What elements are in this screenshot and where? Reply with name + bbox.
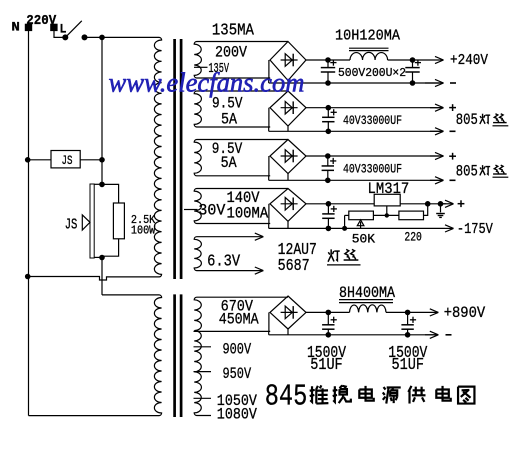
- node C2 top: [410, 57, 416, 63]
- wire LM317 out rail: [400, 203, 446, 205]
- output arrow + (805): [430, 104, 456, 111]
- wire D4 - rail: [269, 227, 445, 229]
- label 200V: [215, 44, 247, 62]
- relay contact JS box: [51, 151, 80, 169]
- node C1 top: [325, 57, 331, 63]
- svg-text:8H400MA: 8H400MA: [339, 284, 396, 302]
- svg-text:5A: 5A: [221, 154, 237, 172]
- svg-text:500V200U×2: 500V200U×2: [338, 66, 406, 80]
- label 100MA: [227, 204, 269, 222]
- label 40V33000UF (2): [343, 161, 402, 176]
- svg-text:6.3V: 6.3V: [207, 252, 241, 271]
- node C6 top: [326, 310, 332, 316]
- svg-text:+890V: +890V: [444, 304, 486, 322]
- bridge rectifier D3: [269, 140, 306, 181]
- label 500V200U x2: [338, 66, 406, 80]
- output arrow minus (805 2): [430, 177, 456, 184]
- transformer T1 core: [175, 39, 182, 279]
- terminal N: [11, 20, 31, 35]
- label 40V33000UF (1): [343, 113, 402, 128]
- svg-text:900V: 900V: [223, 340, 252, 358]
- wire N down left rail: [28, 31, 30, 416]
- regulator U1 LM317: [368, 180, 410, 215]
- tap 135V: [194, 61, 229, 77]
- tap 670V bottom to D5: [194, 330, 271, 332]
- svg-text:220: 220: [404, 230, 422, 245]
- svg-text:100MA: 100MA: [227, 204, 269, 222]
- node C7 top: [405, 310, 411, 316]
- capacitor C1 500V200U: [321, 60, 337, 84]
- wire branch down to T2 primary: [102, 258, 159, 295]
- svg-text:450MA: 450MA: [219, 311, 259, 329]
- node C4 bottom: [325, 178, 331, 184]
- label 220V: [26, 13, 56, 29]
- svg-text:51UF: 51UF: [310, 356, 343, 375]
- label 6.3V: [207, 252, 241, 271]
- svg-text:10H120MA: 10H120MA: [335, 28, 400, 45]
- svg-text:30V: 30V: [198, 202, 226, 220]
- node JS left: [25, 157, 31, 163]
- svg-text:51UF: 51UF: [392, 356, 425, 375]
- transformer T2 core: [175, 294, 182, 417]
- node branch bottom: [99, 255, 105, 261]
- svg-text:JS: JS: [62, 153, 73, 168]
- node top junction: [99, 35, 105, 41]
- svg-text:805: 805: [456, 162, 478, 180]
- capacitor C2 500V200U: [405, 60, 421, 84]
- terminal L: [51, 22, 67, 37]
- wire L to switch: [54, 31, 63, 38]
- wire adj: [373, 213, 399, 217]
- switch S: [62, 21, 102, 41]
- svg-text:40V33000UF: 40V33000UF: [343, 161, 402, 176]
- svg-text:N: N: [11, 20, 20, 35]
- output arrow 6.3V bottom: [200, 267, 264, 274]
- output arrow -175V: [445, 221, 493, 238]
- output arrow minus 890: [425, 331, 452, 338]
- T1 secondary winding 9.5V 5A (2): [194, 140, 288, 176]
- capacitor C5: [322, 204, 337, 229]
- node C4 top: [325, 153, 331, 159]
- T1 secondary winding 9.5V 5A (1): [194, 91, 288, 127]
- resistor 220: [399, 204, 428, 220]
- node C3 bottom: [326, 129, 332, 135]
- node branch top: [99, 182, 105, 188]
- wire bus JS to branch node: [101, 160, 103, 185]
- output arrow +890V: [408, 304, 486, 322]
- output arrow minus (805): [430, 128, 456, 135]
- wire N rail to JS box: [28, 159, 51, 161]
- wire N rail to T1 primary bottom (with hop): [28, 277, 159, 281]
- relay coil JS (bar and arrow): [65, 184, 102, 258]
- label 9.5V (1): [212, 94, 243, 112]
- label 5A (2): [221, 154, 237, 172]
- capacitor C4 40V33000UF: [322, 156, 337, 180]
- wire D3 - rail: [269, 179, 444, 181]
- ground: [436, 204, 445, 218]
- bridge rectifier D4: [269, 189, 306, 229]
- node ground top: [438, 201, 444, 207]
- wire D4 + rail to LM317: [306, 203, 374, 205]
- wire D2 + rail: [306, 107, 444, 109]
- node 220 top: [425, 201, 431, 207]
- svg-text:950V: 950V: [223, 365, 252, 383]
- output arrow + (175): [441, 200, 465, 207]
- inductor L2 8H400MA: [339, 300, 393, 313]
- svg-text:1080V: 1080V: [217, 405, 257, 423]
- label heater (12AU7): [327, 249, 361, 265]
- svg-text:JS: JS: [65, 217, 78, 234]
- wire JS box to bus: [80, 159, 102, 161]
- label 5A (1): [221, 111, 237, 129]
- label 8H400MA: [339, 284, 396, 302]
- label 140V: [227, 189, 261, 207]
- label 1500V 51UF (1): [307, 344, 347, 375]
- svg-text:L: L: [60, 22, 67, 37]
- resistor R 2.5K 100W: [102, 184, 124, 256]
- label 1500V 51UF (2): [388, 344, 428, 375]
- title 845 push-pull PSU: [265, 380, 475, 415]
- tap 1050V: [194, 392, 258, 410]
- svg-text:www.elecfans.com: www.elecfans.com: [109, 68, 305, 98]
- T2 secondary winding 670V-1080V: [194, 297, 288, 415]
- svg-text:50K: 50K: [352, 231, 375, 246]
- output arrow + (805 2): [430, 152, 456, 159]
- wire D3 + rail: [306, 155, 444, 157]
- label 450MA: [219, 311, 259, 329]
- watermark www.elecfans.com: [109, 68, 305, 98]
- node C5 bottom: [326, 226, 332, 232]
- node C2 bottom: [410, 80, 416, 86]
- svg-text:-175V: -175V: [457, 221, 493, 238]
- label 220: [404, 230, 422, 245]
- wire N rail to T2 primary bottom: [29, 415, 159, 417]
- node JS right: [99, 157, 105, 163]
- T1 secondary winding 200V: [194, 42, 288, 79]
- output arrow 6.3V top: [200, 233, 264, 240]
- label 10H120MA: [335, 28, 400, 45]
- node C7 bottom: [405, 332, 411, 338]
- node pot left: [342, 226, 347, 231]
- capacitor C7 1500V51UF: [401, 312, 416, 334]
- bridge rectifier D5: [269, 296, 306, 335]
- svg-text:40V33000UF: 40V33000UF: [343, 113, 402, 128]
- wire D1 + rail: [306, 59, 413, 61]
- wire D1 - rail: [269, 82, 444, 84]
- capacitor C3 40V33000UF: [322, 108, 337, 132]
- label 135MA: [212, 21, 255, 40]
- label 5687: [278, 257, 310, 276]
- inductor L1 10H120MA: [349, 48, 389, 60]
- svg-text:200V: 200V: [215, 44, 247, 62]
- wire vertical bus x102 upper: [101, 37, 103, 159]
- label 2.5K 100W: [131, 213, 156, 238]
- node C6 bottom: [326, 332, 332, 338]
- label 50K: [352, 231, 375, 246]
- label 9.5V (2): [212, 140, 243, 158]
- T1 secondary winding 140V 30V: [194, 189, 288, 224]
- label 670V: [221, 298, 254, 316]
- transformer T1 primary winding: [154, 37, 161, 277]
- svg-text:+240V: +240V: [450, 52, 488, 69]
- tap 900V: [194, 340, 252, 358]
- output arrow +240V: [413, 52, 489, 69]
- wire D2 - rail: [269, 130, 444, 132]
- svg-text:100W: 100W: [131, 223, 156, 237]
- node C5 top: [326, 201, 332, 207]
- bridge rectifier D1: [269, 42, 306, 84]
- transformer T2 primary winding: [154, 295, 161, 416]
- tap 30V: [184, 202, 226, 220]
- svg-text:5687: 5687: [278, 257, 310, 276]
- wire D5 + rail: [306, 311, 408, 313]
- label 805 heater (2): [456, 162, 509, 180]
- label 805 heater (1): [456, 111, 509, 129]
- capacitor C6 1500V51UF: [322, 312, 337, 334]
- label 1080V: [217, 405, 257, 423]
- potentiometer 50K: [345, 211, 374, 228]
- node C1 bottom: [325, 80, 331, 86]
- wire top to primary: [102, 36, 159, 38]
- node C3 top: [326, 105, 332, 111]
- bridge rectifier D2: [269, 91, 306, 131]
- svg-text:845: 845: [265, 380, 308, 415]
- node N rail bottom junction: [25, 274, 31, 280]
- T1 secondary winding 6.3V: [194, 237, 201, 271]
- svg-text:5A: 5A: [221, 111, 237, 129]
- svg-text:135MA: 135MA: [212, 21, 255, 40]
- label 12AU7: [278, 241, 317, 260]
- svg-text:805: 805: [456, 111, 478, 129]
- wire D5 - rail: [269, 334, 439, 336]
- output arrow minus 240V: [425, 79, 456, 86]
- tap 950V: [194, 365, 252, 383]
